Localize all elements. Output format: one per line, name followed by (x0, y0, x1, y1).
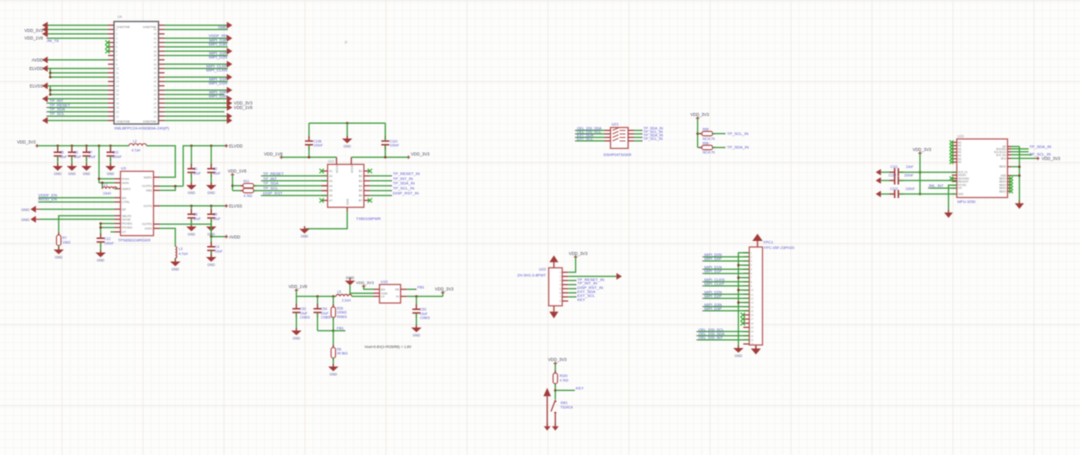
svg-text:TP_SCL_IN: TP_SCL_IN (643, 137, 663, 141)
svg-text:A2: A2 (329, 174, 333, 178)
svg-text:VDD_3V3: VDD_3V3 (24, 28, 43, 33)
svg-text:GMC: GMC (218, 24, 227, 29)
U12 top pin stubs VCCA VCCB (337, 157, 352, 164)
ground top rail (342, 136, 352, 149)
svg-text:GND/TAB: GND/TAB (143, 120, 156, 124)
capacitor C54 (314, 304, 322, 318)
capacitor C112 (890, 177, 904, 185)
svg-text:C112: C112 (889, 174, 897, 178)
wire PGND riser (100, 224, 102, 238)
svg-text:10uF: 10uF (60, 155, 68, 159)
junction C2 (210, 145, 213, 148)
svg-text:U21: U21 (612, 123, 619, 127)
wire C9 gnd lead (210, 219, 212, 227)
svg-text:GND: GND (21, 208, 30, 212)
capacitor C113 (890, 190, 904, 198)
svg-text:100nF: 100nF (112, 155, 121, 159)
svg-text:U3: U3 (121, 166, 126, 170)
ground C12 (95, 250, 105, 263)
svg-text:100nF: 100nF (906, 187, 915, 191)
svg-text:R7: R7 (63, 236, 67, 240)
wire ELVDD riser (183, 146, 226, 186)
wire gnd stub top rail (346, 123, 348, 138)
svg-text:EP: EP (122, 207, 126, 211)
junction VDD (919, 193, 922, 196)
junction C6 top (71, 145, 74, 148)
wire C8 gnd lead (190, 219, 192, 227)
svg-text:GND: GND (735, 354, 743, 358)
wire C1 lead (190, 146, 192, 168)
wire TP_SDA_IN from U23 (1011, 148, 1029, 150)
svg-text:L3: L3 (179, 247, 183, 251)
capacitor C9 (207, 209, 215, 223)
IC U4 display driver body (114, 22, 159, 125)
resistor R6 (331, 345, 335, 361)
wire U4 right MIPI_D1P (165, 80, 228, 82)
arrow down U22 bottom (549, 312, 558, 319)
wire R11 to TXS (254, 185, 328, 187)
connector U22 body (549, 268, 563, 306)
junction FB node (332, 329, 335, 332)
svg-text:TP_SCL: TP_SCL (50, 111, 66, 116)
svg-text:DSHP04TSGER: DSHP04TSGER (604, 153, 632, 157)
wire FPC1 gnd pin 10 (738, 289, 749, 291)
svg-text:RESV: RESV (999, 190, 1006, 193)
wire ELVDD tie row2 (50, 72, 108, 74)
supply pin VDD_3V3 buck right (441, 291, 444, 294)
wire TP_SDA_IN from U12 (370, 185, 392, 187)
wire TP_SCL_IN from U21 (634, 133, 642, 135)
wire TP_SCL (48, 115, 108, 117)
supply pin VDD_1V8 at buck (295, 289, 298, 292)
resistor R26 (331, 304, 335, 320)
IC U4 GND/TAB texts (117, 25, 157, 124)
svg-text:VDD_1V8: VDD_1V8 (228, 168, 247, 173)
junction C10 top (109, 145, 112, 148)
U3 pin names (122, 175, 152, 234)
wire VDD_1V8 rail at buck (296, 290, 336, 296)
capacitor C2 (207, 164, 215, 178)
svg-text:MIPI_D1N: MIPI_D1N (209, 81, 228, 86)
svg-text:GAIN: GAIN (145, 227, 152, 231)
svg-text:JML_INT: JML_INT (928, 184, 944, 188)
wire ELVDD tie vertical (49, 69, 51, 78)
wire C7 top lead (86, 146, 88, 152)
svg-text:4.7uH: 4.7uH (179, 252, 188, 256)
ground arrow EP (31, 206, 36, 213)
wire MIPI_D3N to FPC1 (704, 306, 749, 308)
U22 pin stubs (562, 272, 568, 301)
svg-text:FB: FB (395, 287, 399, 291)
svg-text:C0603: C0603 (420, 316, 430, 320)
svg-text:GND: GND (330, 373, 338, 377)
wire U4 right row 21 (165, 111, 225, 113)
svg-text:VDD_3V3: VDD_3V3 (17, 140, 36, 145)
wire C111 left lead (881, 171, 894, 173)
wire FPC1 gnd pin 13 (738, 302, 749, 304)
wire C5 bottom lead (57, 157, 59, 166)
svg-text:10uF: 10uF (74, 155, 82, 159)
wire U4 pin18 gnd (43, 98, 109, 100)
arrow up FPC1 (752, 234, 762, 241)
svg-text:NC/4.7K: NC/4.7K (703, 151, 716, 155)
svg-text:4.7kΩ: 4.7kΩ (560, 378, 569, 382)
wire U4 right row 16 (165, 89, 228, 91)
svg-text:MIPI_D3N: MIPI_D3N (209, 42, 228, 47)
wire R26 top lead (332, 296, 334, 307)
connector FPC1 body (749, 247, 762, 345)
wire ELVSS tie row3 (50, 93, 108, 95)
inductor L5 (336, 294, 352, 296)
wire U4 right row 23 (165, 119, 228, 121)
svg-text:B4: B4 (359, 184, 363, 188)
wire PVIN riser (98, 146, 100, 183)
wire U4 right VSDF_RN (165, 37, 228, 39)
junction R26 top (332, 295, 335, 298)
ground C52 (291, 328, 301, 341)
wire FSYNC gnd drop (949, 185, 957, 212)
svg-text:SW1: SW1 (560, 401, 567, 405)
svg-text:C113: C113 (890, 187, 898, 191)
wire C9 lead (210, 206, 212, 214)
svg-text:R0603: R0603 (337, 315, 347, 319)
svg-text:VDD_3V3: VDD_3V3 (1042, 156, 1061, 161)
ground FSYNC (944, 210, 953, 218)
svg-text:B5: B5 (359, 189, 363, 193)
U23 right pin names (994, 146, 1006, 194)
wire TP_RESET_IN long (568, 275, 616, 277)
wire C113 to U23 (899, 193, 957, 195)
wire KEY stub (555, 389, 574, 391)
capacitor C12 (97, 233, 105, 247)
capacitor C7 (83, 147, 91, 161)
wire OUTP1 (160, 185, 184, 187)
wire GAIN to L3 (160, 228, 176, 246)
svg-text:Vout=0.6V(1+R26/R6) = 1.8V: Vout=0.6V(1+R26/R6) = 1.8V (365, 345, 412, 349)
svg-text:PGND2: PGND2 (122, 226, 133, 230)
svg-text:VDD_3V3: VDD_3V3 (435, 287, 454, 292)
U23 left pin stubs (952, 142, 957, 194)
wire TP_RESET to U12 (262, 175, 327, 177)
svg-text:JM_TE: JM_TE (47, 38, 60, 43)
IC U4 pin numbers (116, 28, 157, 119)
svg-text:MIPI_D1P: MIPI_D1P (704, 270, 722, 274)
svg-text:AVIN: AVIN (122, 181, 129, 185)
svg-text:GND: GND (21, 218, 30, 222)
svg-text:L2: L2 (133, 140, 137, 144)
svg-text:MIPI_D2N: MIPI_D2N (209, 55, 228, 60)
svg-text:DISP_RST_IN: DISP_RST_IN (393, 191, 419, 196)
svg-text:10uF: 10uF (193, 217, 201, 221)
wire C2 lead (210, 146, 212, 168)
no-connect FPC1 pins 16-18 (741, 313, 745, 317)
wire C53 gnd lead (415, 314, 417, 328)
svg-text:C0805: C0805 (321, 316, 331, 320)
wire L2 to SWP1 corner (147, 146, 176, 177)
wire JML_INT (930, 187, 957, 189)
svg-text:AVDD: AVDD (32, 58, 43, 63)
svg-text:TP_SDA_IN: TP_SDA_IN (727, 145, 749, 150)
wire VDD_3V3 pin stub buck (442, 293, 444, 297)
wire L3 gnd lead (174, 258, 176, 262)
wire TP_SCL_IN from U23 (1011, 151, 1029, 153)
wire MIPI_D0P to FPC1 (704, 260, 749, 262)
wire U4 right MIPI_D3N (165, 46, 228, 48)
svg-text:100nF: 100nF (314, 144, 323, 148)
wire DISP_RST_IN at U22 (568, 284, 576, 286)
svg-text:GND: GND (343, 145, 351, 149)
U3 left pin stubs (115, 179, 121, 232)
no-connect U23 right (1009, 177, 1013, 181)
svg-text:GND/TAB: GND/TAB (117, 120, 130, 124)
wire C52 lead (295, 296, 297, 308)
svg-text:FPC1: FPC1 (764, 240, 774, 244)
svg-text:B7: B7 (359, 199, 363, 203)
wire C53 lead (415, 296, 417, 308)
wire EP to gnd bus (1011, 146, 1019, 148)
wire VDD_3V3 right of U23 (1011, 157, 1037, 159)
IC U4 left pin stubs (108, 25, 114, 120)
ground R7 (54, 247, 64, 260)
wire OEL_DSI_SDA to U21 (577, 129, 605, 131)
ground C1 (186, 182, 196, 195)
wire AUX_DA stub (1011, 154, 1032, 156)
svg-text:GND: GND (207, 263, 215, 267)
U10 pin stubs (374, 289, 407, 296)
svg-text:OUTN: OUTN (144, 204, 153, 208)
wire U4 right row 1 (165, 24, 228, 26)
IC U12 level shifter body (328, 164, 364, 207)
wire U4 right row 22 (165, 115, 228, 117)
svg-text:A5: A5 (329, 189, 333, 193)
junction C108 (308, 156, 311, 159)
wire C7 bottom lead (86, 157, 88, 166)
capacitor C1 (187, 164, 195, 178)
wire C112 left lead (881, 180, 894, 182)
junction C53 (415, 295, 418, 298)
svg-text:A6: A6 (329, 194, 333, 198)
ground arrow C111 (876, 169, 881, 175)
wire OUTN ELVSS (160, 205, 227, 207)
svg-text:4.7uH: 4.7uH (132, 148, 141, 152)
U12 bottom pin stub GND (346, 207, 348, 211)
wire OUTP2 to AVDD (160, 224, 227, 237)
wire MIPI_D2N to FPC1 (704, 293, 749, 295)
svg-text:CT: CT (122, 230, 126, 234)
svg-text:NC/4.7K: NC/4.7K (703, 137, 716, 141)
wire U4 right row 19 (165, 102, 228, 104)
FPC1 pin stubs (743, 253, 749, 344)
U12 side pin stubs (322, 171, 370, 200)
wire C108 bottom lead (308, 146, 310, 158)
wire to R95 (698, 133, 702, 135)
U10 pin names (381, 287, 399, 298)
svg-text:A4: A4 (329, 184, 333, 188)
supply pin VDD_3V3 (35, 144, 38, 147)
wire MIPI_CLKN to FPC1 (704, 281, 749, 283)
arrow up U22 top (549, 255, 558, 262)
IC U21 switch body (611, 128, 629, 149)
wire TP_INT_IN from U12 (370, 180, 392, 182)
wire VDD_3V3 to EN (364, 286, 374, 289)
wire VDD_3V3 riser at U23 (919, 153, 921, 194)
wire R7 to gnd (58, 246, 60, 250)
svg-text:RESV: RESV (999, 166, 1006, 169)
svg-text:VDD: VDD (958, 193, 963, 196)
ground C6 (67, 163, 77, 176)
junction C1 (190, 145, 193, 148)
wire FPC1 gnd pin 7 (738, 277, 749, 279)
supply pin VDD_3V3 at U22 (574, 255, 577, 258)
svg-text:VDD_3V3: VDD_3V3 (913, 147, 932, 152)
svg-text:U23: U23 (957, 134, 963, 138)
junction R95 (696, 132, 699, 135)
supply pin VDD_1V8 pullups (231, 173, 234, 176)
ground C4 (206, 254, 216, 267)
wire C4 lead (210, 237, 212, 246)
svg-text:VDD_1V8: VDD_1V8 (289, 284, 308, 289)
node AVDD pin (225, 235, 228, 238)
wire OEL_DSI_SCL to FPC1 (698, 331, 749, 333)
U22 pin numbers (560, 270, 562, 303)
svg-text:GND: GND (97, 259, 105, 263)
node ELVSS pin (225, 204, 228, 207)
wire C108 top lead (308, 123, 310, 140)
capacitor C6 (68, 147, 76, 161)
svg-text:EXT_SCL: EXT_SCL (577, 137, 593, 141)
inductor L3 (175, 247, 176, 259)
junction C5 top (56, 145, 59, 148)
wire FB1 from U10 (407, 288, 417, 290)
capacitor C52 (292, 304, 300, 318)
wire U4 pin1 (43, 24, 109, 26)
svg-text:49.9kΩ: 49.9kΩ (337, 352, 348, 356)
svg-text:VDD_3V3: VDD_3V3 (356, 280, 375, 285)
wire SWP2 from L1 (115, 188, 118, 190)
wire C113 left lead (881, 193, 894, 195)
svg-text:NC: NC (958, 161, 962, 164)
wire CTRL (38, 201, 114, 203)
svg-text:L5: L5 (337, 290, 341, 294)
junction C9 (210, 205, 213, 208)
supply pin VDD_3V3 above U10 (362, 285, 365, 288)
wire TP_SDA (48, 111, 108, 113)
svg-text:R95: R95 (703, 127, 709, 131)
wire R12 to TXS (254, 190, 328, 192)
wire TP_SDA_IN from U21 (634, 136, 642, 138)
FPC1 top stub (757, 241, 759, 247)
svg-text:TP_SCL_IN: TP_SCL_IN (727, 131, 748, 136)
wire C54 lead (317, 296, 319, 308)
inductor L1 (102, 187, 117, 189)
wire C12 to gnd (100, 243, 102, 253)
svg-text:B2: B2 (359, 174, 363, 178)
no-connect U12 corners (319, 169, 323, 173)
wire ELVSS tie row2 (50, 89, 108, 91)
wire C111 to U23 (899, 171, 957, 173)
U22 top mount stub (553, 262, 555, 268)
svg-text:R11: R11 (244, 180, 250, 184)
wire AVDD (43, 59, 109, 61)
capacitor C108 (305, 136, 313, 150)
junction FBS-OUTP1 (174, 185, 177, 188)
wire TP_INT to U12 (262, 180, 327, 182)
wire R95 out (713, 133, 726, 135)
wire C6 top lead (71, 146, 73, 152)
svg-text:NCS: NCS (1001, 157, 1007, 160)
inductor L2 (129, 144, 147, 146)
wire R6 gnd lead (332, 358, 334, 367)
wire EXT_SDA to U21 (577, 136, 605, 138)
wire C54 to FB node (317, 313, 319, 331)
capacitor C10 (107, 147, 115, 161)
wire FPC1 gnd pin 4 (738, 264, 749, 266)
U3 right pin stubs (154, 177, 160, 228)
wire JM_TE (48, 37, 108, 39)
ground SW1 frame (544, 424, 551, 431)
svg-text:R100: R100 (560, 374, 568, 378)
wire C108 C110 top rail (309, 122, 385, 124)
wire GND branch (1011, 175, 1019, 177)
svg-text:MIPI_D0P: MIPI_D0P (704, 257, 722, 261)
svg-text:C12: C12 (104, 237, 110, 241)
ground C2 (206, 182, 216, 195)
ground C10 (105, 163, 115, 176)
U12 pin names (329, 165, 363, 205)
svg-text:A3: A3 (329, 179, 333, 183)
wire C110 top lead (384, 123, 386, 140)
resistor R95 (699, 131, 715, 135)
wire MIPI_D1P to FPC1 (704, 272, 749, 274)
svg-text:TXB0106PWR: TXB0106PWR (356, 217, 381, 221)
svg-text:VDD_1V8: VDD_1V8 (24, 35, 43, 40)
wire C10 bottom lead (110, 157, 112, 166)
svg-text:VDD_1V8: VDD_1V8 (264, 151, 283, 156)
wire C4 gnd lead (210, 251, 212, 257)
no-connect marks U4 pins 5-7 (105, 40, 109, 44)
svg-text:2.2uH: 2.2uH (342, 299, 351, 303)
ground C8 (186, 224, 196, 237)
wire DISP_RST_IN from U12 (370, 195, 392, 197)
FPC1 pin numbers (751, 251, 754, 346)
wire U4 right GMC (165, 29, 228, 31)
wire U4 right row 13 (165, 76, 228, 78)
svg-text:INT: INT (958, 187, 963, 190)
wire U4 right MIPI_CLKP (165, 68, 228, 70)
supply pin VDD_1V8 at U12 (280, 156, 283, 159)
U21 switch glyphs (613, 128, 626, 141)
junction C7 top (85, 145, 88, 148)
IC U3 PMIC body (121, 171, 154, 235)
wire MIPI_D1N to FPC1 (704, 268, 749, 270)
supply pin VDD_3V3 at U23 (918, 152, 921, 155)
wire VDD_3V3 to VCCB (351, 156, 408, 158)
wire ELVSS (43, 85, 109, 87)
wire EXT_SCL at U22 (568, 292, 576, 294)
svg-text:GND: GND (188, 233, 196, 237)
svg-text:U10: U10 (381, 280, 388, 284)
wire TP_INT (48, 102, 108, 104)
wire IN to VDD_3V3 (407, 295, 443, 297)
wire TP_SCL through R12 (233, 190, 243, 192)
svg-text:C111: C111 (890, 165, 898, 169)
svg-text:10uF: 10uF (213, 217, 221, 221)
resistor R100 (553, 371, 557, 387)
svg-text:10uH: 10uH (103, 191, 112, 195)
supply pin VDD_3V3 right of U23 (1036, 157, 1039, 160)
junction C4 (210, 235, 213, 238)
ground arrow AGND (31, 216, 36, 223)
